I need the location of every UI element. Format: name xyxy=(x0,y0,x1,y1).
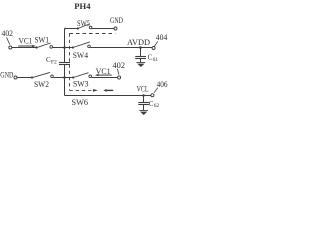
svg-text:SW4: SW4 xyxy=(73,51,89,60)
svg-text:PH4: PH4 xyxy=(74,1,91,11)
capacitor C62 xyxy=(143,96,145,103)
wire row3 mid xyxy=(54,77,74,79)
capacitor C61 xyxy=(140,48,142,57)
junction node xyxy=(63,46,66,49)
svg-text:SW3: SW3 xyxy=(73,79,89,88)
wire row2 left xyxy=(12,47,37,49)
svg-text:GND: GND xyxy=(110,16,123,25)
switch SW1 xyxy=(35,46,37,48)
ground (C62) xyxy=(139,110,148,112)
svg-text:62: 62 xyxy=(154,103,160,109)
svg-text:F2: F2 xyxy=(51,59,57,65)
svg-text:GND: GND xyxy=(0,71,13,80)
dashed box left edge xyxy=(69,34,71,91)
node AVDD 404 xyxy=(152,47,155,50)
svg-text:SW6: SW6 xyxy=(72,98,89,107)
node GND top xyxy=(114,27,117,30)
svg-text:VCL: VCL xyxy=(137,84,149,93)
svg-text:402: 402 xyxy=(2,29,14,38)
junction cap C61 xyxy=(139,46,142,49)
vertical node wire xyxy=(64,29,66,63)
svg-text:402: 402 xyxy=(113,61,126,70)
ground (C61) xyxy=(136,62,145,64)
node 402 right xyxy=(118,76,121,79)
svg-text:61: 61 xyxy=(153,57,159,63)
switch SW2 xyxy=(31,76,33,78)
svg-text:VC1: VC1 xyxy=(19,37,33,46)
switch SW4 xyxy=(72,46,74,48)
wire row2 mid xyxy=(53,47,73,49)
svg-text:SW1: SW1 xyxy=(35,36,50,45)
wire row3 left xyxy=(17,77,32,79)
dashed box top edge xyxy=(70,33,116,35)
svg-text:406: 406 xyxy=(157,80,168,89)
wire top line right xyxy=(92,28,114,30)
svg-text:AVDD: AVDD xyxy=(127,38,150,47)
node 406 xyxy=(151,94,154,97)
wire bottom line xyxy=(65,95,151,97)
wire top line left xyxy=(65,28,78,30)
junction cap C62 xyxy=(142,94,144,96)
switch SW3 xyxy=(72,76,74,78)
switch SW5 xyxy=(77,27,79,29)
capacitor CF2 xyxy=(59,62,70,64)
svg-text:SW2: SW2 xyxy=(34,80,49,89)
junction node xyxy=(63,76,66,79)
wire row2 right xyxy=(91,47,153,49)
arrow to VCL xyxy=(106,89,113,91)
dashed box bottom edge with arrow xyxy=(70,89,93,91)
svg-text:SW5: SW5 xyxy=(77,19,90,28)
svg-text:404: 404 xyxy=(156,33,168,42)
wire row3 right xyxy=(92,77,118,79)
